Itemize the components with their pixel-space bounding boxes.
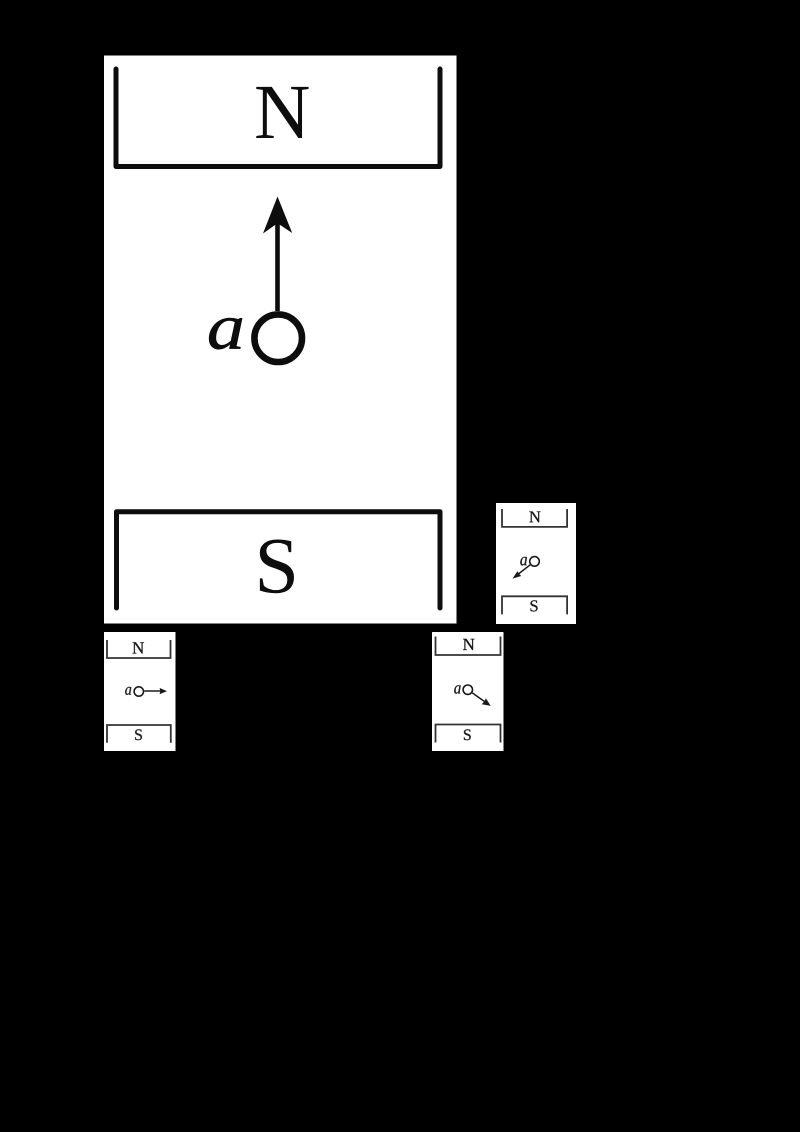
label N (B) [529,511,540,522]
magnet pole N (C): bracket [107,640,171,658]
magnet pole N (D): bracket [436,637,501,656]
option panel C (bottom left) background [104,632,176,751]
label N (big) [256,87,308,138]
label N (C) [133,642,144,653]
option panel B (right) background [496,503,576,624]
magnet pole S (D): bracket [436,725,501,743]
label S (C) [135,729,142,740]
particle circle (B) [530,557,540,567]
velocity arrow (B): down-left [518,565,531,575]
magnet pole N (B): bracket [502,509,567,527]
big option panel background [104,56,457,624]
magnet pole S (B): bracket [502,596,567,614]
label S (big) [260,540,294,594]
particle circle (D) [463,685,472,694]
label a (B) [520,557,527,566]
magnet pole N (big): bracket [116,69,440,167]
option panel D (bottom middle) background [432,632,504,751]
label N (D) [463,639,474,650]
particle circle (C) [134,687,143,696]
velocity arrowhead (big) [263,197,292,234]
charged particle a (big): circle [254,314,302,362]
label a (D) [454,685,460,693]
magnet pole S (big): bracket [117,512,441,608]
magnet pole S (C): bracket [107,725,171,743]
label a (big) [209,318,242,349]
velocity arrow (D): down-right [472,693,485,702]
label S (D) [464,729,471,740]
velocity arrow (C): right [144,690,160,692]
velocity arrow shaft (big) [275,221,280,311]
label S (B) [531,600,538,611]
label a (C) [125,687,131,695]
